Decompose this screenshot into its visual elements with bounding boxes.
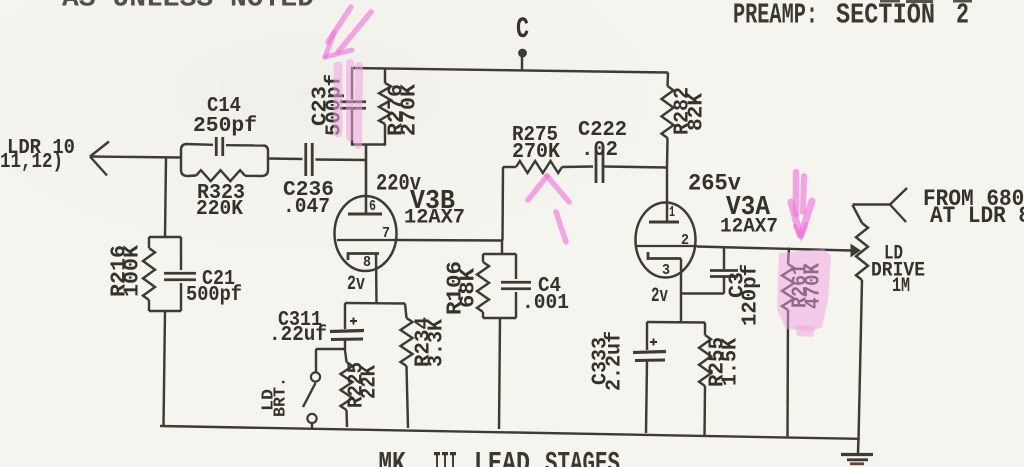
wire V3B grid to node (396, 239, 502, 242)
svg-text:68K: 68K (458, 268, 481, 308)
label FROM 680K AT LDR 8 (923, 186, 1024, 229)
resistor R282 (82K) (662, 73, 674, 168)
resistor R216 (100K) branch (143, 237, 155, 311)
wire to ground rail (164, 311, 166, 426)
wire node C stub (521, 56, 523, 70)
label 2v cathode voltage V3B (347, 273, 365, 296)
label LDR 10 (11,12) (0, 137, 75, 174)
wire R282 to V3A plate (666, 168, 668, 223)
svg-text:.001: .001 (522, 292, 569, 315)
svg-text:2: 2 (681, 232, 689, 249)
label R275 270K (512, 124, 560, 164)
label LD DRIVE 1M (871, 243, 925, 299)
svg-text:III: III (433, 448, 457, 467)
label C236 .047 (283, 179, 334, 219)
highlighter mark over C23 (338, 63, 359, 145)
V3A grid (637, 245, 697, 247)
label R261 470K (790, 263, 826, 309)
wire R106/C4 top edge (483, 253, 516, 255)
svg-text:120pf: 120pf (740, 264, 763, 326)
highlighter mark over R261 (777, 249, 831, 337)
wire C236 to plate node (316, 158, 367, 161)
svg-text:500pf: 500pf (186, 284, 242, 307)
wire LDR line to R216/C21 (165, 158, 166, 237)
svg-text:BRT.: BRT. (272, 377, 291, 417)
arrow from LDR 8 (890, 188, 907, 222)
resistor R225 (22K) (341, 350, 353, 427)
resistor R276 (270K) branch (379, 68, 391, 145)
svg-text:.22uf: .22uf (269, 324, 327, 347)
label V3A (726, 193, 771, 223)
capacitor C222 (.02) (596, 150, 603, 183)
V3B cathode (348, 254, 379, 261)
wire C333/R255 top edge (647, 321, 705, 324)
svg-text:C: C (516, 13, 529, 47)
svg-text:2v: 2v (651, 285, 668, 308)
label V3B 12AX7 (404, 207, 465, 230)
label R106 68K (445, 261, 481, 315)
capacitor C21 (500pf) branch (164, 237, 196, 311)
svg-text:2v: 2v (347, 273, 365, 296)
label C4 .001 (522, 275, 569, 315)
wire V3A cathode to network (680, 295, 682, 322)
svg-text:7: 7 (382, 225, 390, 242)
note text fragments (cut off) above title (880, 0, 972, 3)
wire R106/C4 to ground rail (499, 318, 500, 429)
switch LD BRT arm (303, 383, 316, 407)
svg-text:12AX7: 12AX7 (720, 216, 778, 239)
svg-text:AT LDR 8: AT LDR 8 (930, 203, 1024, 229)
svg-text:11,12): 11,12) (0, 151, 63, 174)
svg-text:LEAD: LEAD (474, 448, 530, 467)
V3B grid (337, 239, 396, 241)
svg-text:.047: .047 (283, 196, 330, 219)
wire R323 box to C236 (268, 157, 303, 160)
wire V3B plate riser (365, 145, 368, 214)
ground symbol (841, 438, 873, 464)
V3A pin 1 label (669, 204, 675, 221)
tube V3B envelope (335, 196, 397, 271)
svg-text:82K: 82K (686, 93, 709, 131)
svg-text:SECTION: SECTION (836, 0, 935, 32)
label 265v plate voltage (688, 171, 741, 197)
wire grid node riser (501, 167, 504, 241)
label R216 100K (109, 245, 145, 297)
switch LD BRT contact bottom (307, 414, 316, 423)
arrow to LDR 10 (90, 142, 109, 176)
svg-text:MK: MK (379, 448, 406, 467)
capacitor C14 (250pf) branch (186, 137, 263, 156)
V3B pin 7 label (382, 225, 390, 242)
note text (cut off at top): AS UNLESS NOTED (62, 0, 314, 15)
wire V3A cathode lead (680, 259, 682, 296)
resistor R234 (3.3K) (401, 304, 413, 429)
resistor R106 (68K) branch (477, 254, 489, 318)
capacitor C23 (500pf) branch (340, 67, 366, 145)
V3B plate (348, 213, 382, 216)
resistor R261 (470K) (782, 248, 794, 439)
V3A pin 3 label (662, 262, 670, 279)
svg-text:22K: 22K (359, 365, 382, 399)
tube V3A envelope (636, 203, 696, 278)
wire V3B cathode lead (375, 254, 378, 304)
capacitor C311 (.22uf) polarized (330, 303, 364, 350)
label R234 3.3K (413, 317, 449, 367)
label C3 120pf (727, 264, 763, 326)
wire C222 to V3A plate node (603, 167, 667, 168)
svg-text:PREAMP:: PREAMP: (733, 0, 818, 32)
V3A plate (649, 221, 679, 224)
svg-text:12AX7: 12AX7 (404, 207, 465, 230)
highlighter arrow at C23 (325, 7, 371, 57)
wire R106/C4 bottom edge (483, 317, 516, 319)
label V3B (410, 187, 455, 217)
svg-text:6: 6 (369, 198, 376, 215)
label C333 2.2uf (590, 331, 627, 391)
svg-text:100K: 100K (122, 245, 145, 297)
wire C3 to cathode jog (681, 292, 724, 294)
wire R216/C21 bottom edge (149, 310, 181, 312)
svg-text:270K: 270K (512, 141, 560, 164)
title text MK III LEAD STAGES (cut off at bottom) (379, 448, 621, 467)
label 220v plate voltage (376, 171, 421, 197)
svg-text:220v: 220v (376, 171, 421, 197)
svg-text:2.2uf: 2.2uf (604, 331, 627, 391)
capacitor C333 (2.2uf) polarized branch (633, 322, 666, 433)
wire V3B cathode rail (345, 302, 405, 305)
wire LDR line (90, 157, 181, 158)
label C23 500pf (310, 74, 347, 136)
label R282 82K (672, 87, 709, 135)
V3B pin 6 label (369, 198, 376, 215)
label C14 250pf (193, 95, 257, 138)
svg-text:1M: 1M (892, 275, 910, 298)
label R255 1.5K (707, 337, 743, 387)
V3A cathode (648, 252, 681, 259)
resistor R323 (220K) branch (box) (181, 144, 268, 181)
resistor R255 (1.5K) branch (699, 323, 711, 438)
V3B pin 8 label (363, 254, 371, 271)
capacitor C4 (.001) branch (501, 254, 531, 318)
wire pot top to input arrow (853, 203, 891, 205)
pot wiper arrow (851, 245, 860, 257)
node C junction dot (518, 49, 527, 58)
svg-text:AS UNLESS NOTED: AS UNLESS NOTED (62, 0, 314, 15)
svg-text:270K: 270K (399, 84, 422, 136)
svg-text:250pf: 250pf (193, 115, 257, 138)
svg-text:2: 2 (956, 0, 969, 32)
svg-text:8: 8 (363, 254, 371, 271)
label C222 .02 (578, 119, 627, 162)
capacitor C3 (120pf) (710, 248, 738, 294)
svg-text:.02: .02 (581, 139, 618, 162)
potentiometer LD DRIVE (1M) (853, 205, 869, 440)
wire V3A grid line (697, 247, 851, 251)
svg-text:1: 1 (669, 204, 675, 221)
wire grid node drop (501, 241, 503, 255)
wire ground rail (160, 426, 859, 439)
wire C311 to switch jog (316, 349, 345, 372)
capacitor C236 (.047) (306, 143, 313, 176)
label R323 220K (196, 182, 245, 221)
svg-text:220K: 220K (196, 198, 243, 221)
wire switch to ground rail (311, 423, 313, 429)
highlighter arrow at R261 (791, 172, 812, 237)
node C label (516, 13, 529, 47)
resistor R275 (270K) (503, 161, 593, 173)
label C21 500pf (186, 268, 242, 307)
svg-text:STAGES: STAGES (545, 448, 620, 467)
wire C23/R276 bottom edge (351, 143, 386, 145)
wire R216/C21 top edge (149, 236, 181, 238)
svg-text:1.5K: 1.5K (720, 338, 743, 386)
label R276 270K (386, 84, 422, 136)
label V3A 12AX7 (720, 216, 778, 239)
switch LD BRT contact top (311, 372, 320, 381)
title text PREAMP: SECTION 2 (733, 0, 969, 32)
label LD BRT. (260, 377, 291, 417)
wire top supply rail (351, 68, 668, 73)
label R225 22K (346, 362, 382, 408)
svg-text:3: 3 (662, 262, 670, 279)
V3A pin 2 label (681, 232, 689, 249)
label 2v cathode voltage V3A (651, 285, 668, 308)
svg-text:3.3K: 3.3K (426, 319, 449, 367)
label C311 .22uf (269, 309, 327, 347)
highlighter arrow at R275 (528, 176, 569, 242)
